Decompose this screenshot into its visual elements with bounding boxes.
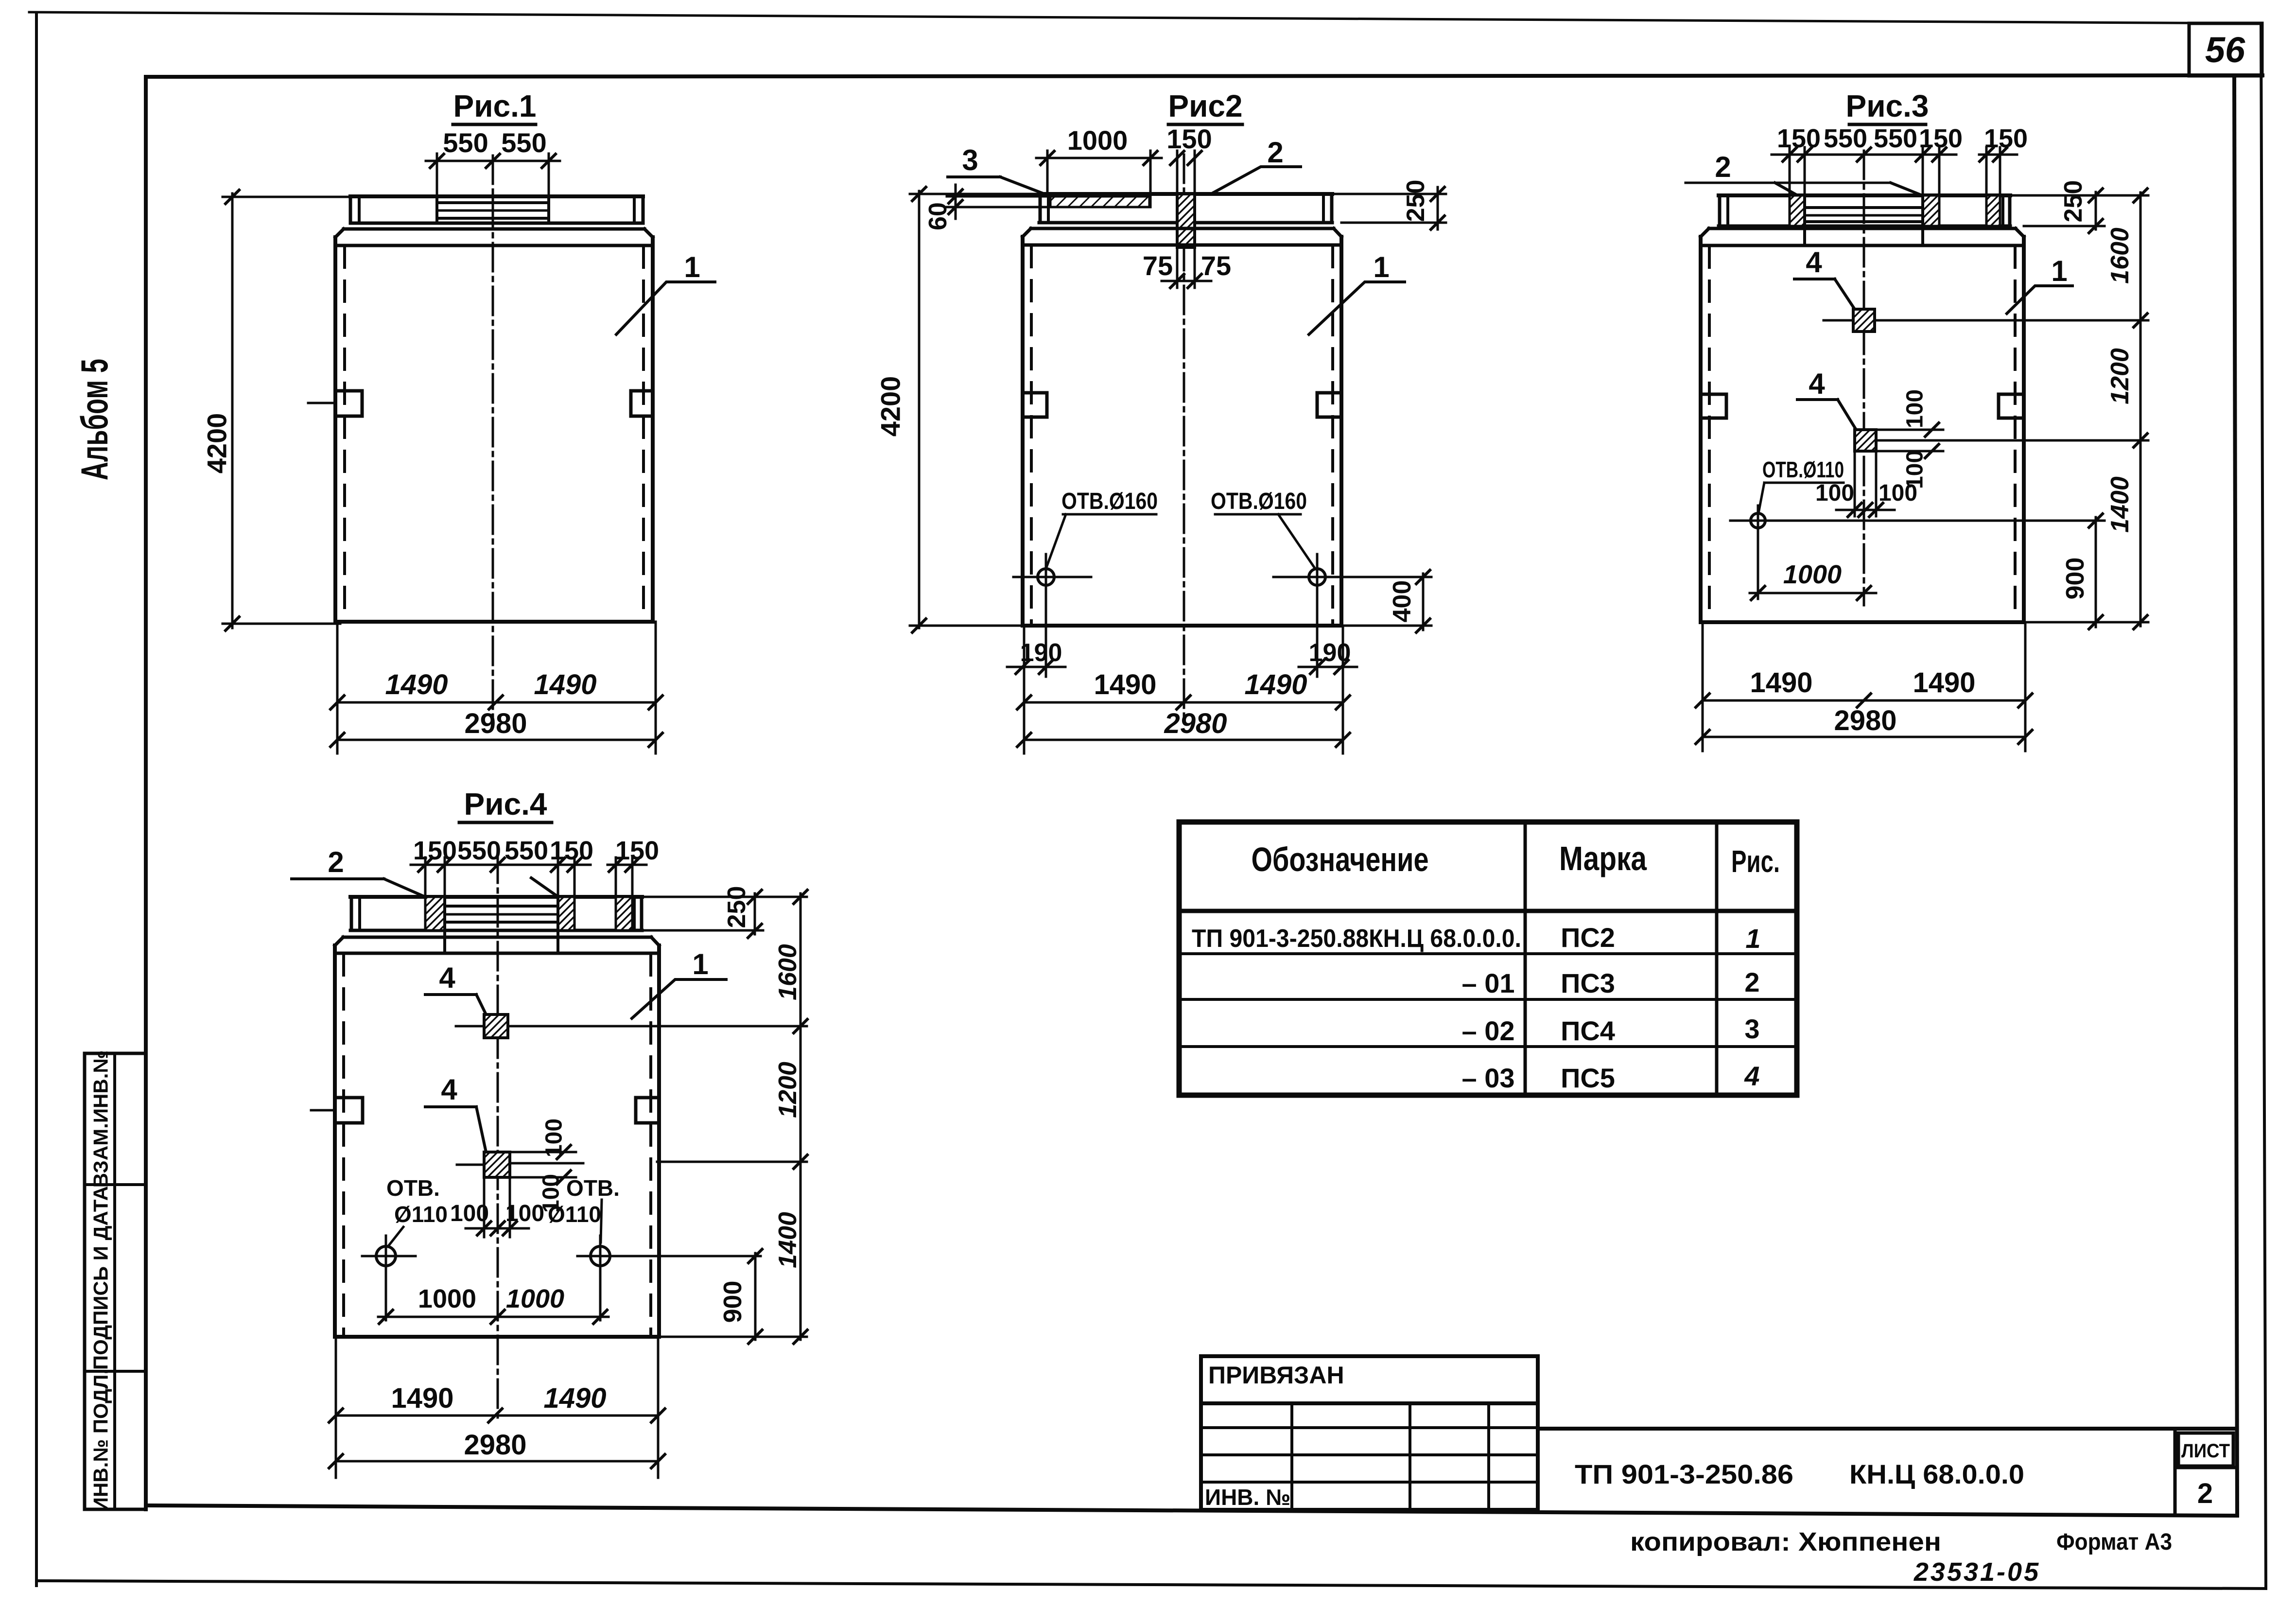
svg-text:ИНВ.№ ПОДЛ.: ИНВ.№ ПОДЛ. [89, 1369, 112, 1512]
svg-text:2980: 2980 [1164, 708, 1227, 739]
fig4 panel top strip [350, 895, 642, 899]
svg-text:150: 150 [1777, 124, 1821, 153]
svg-text:1: 1 [1745, 923, 1760, 954]
svg-text:ОТВ.: ОТВ. [386, 1175, 440, 1201]
svg-text:4: 4 [1806, 246, 1822, 279]
svg-text:2980: 2980 [464, 1429, 526, 1461]
privyazan stamp box [1201, 1356, 1538, 1510]
fig3 insert 2 blocks hatched [1790, 195, 1805, 226]
svg-text:100: 100 [1902, 389, 1928, 428]
fig4 top recess [443, 897, 446, 953]
svg-text:1: 1 [684, 251, 700, 283]
fig2 dashed edge lines [1030, 246, 1033, 622]
drawing frame [146, 75, 2262, 77]
fig3 insert 4 upper square [1853, 309, 1875, 332]
list box [2174, 1429, 2177, 1512]
svg-text:4: 4 [1744, 1061, 1759, 1091]
svg-text:ПРИВЯЗАН: ПРИВЯЗАН [1208, 1362, 1344, 1389]
svg-text:1490: 1490 [391, 1382, 453, 1414]
svg-text:550: 550 [443, 127, 488, 158]
svg-text:ПС4: ПС4 [1561, 1015, 1615, 1046]
svg-text:1000: 1000 [1783, 560, 1842, 589]
fig3 dashed edge lines [1708, 247, 1711, 619]
svg-text:150: 150 [1919, 124, 1963, 153]
svg-text:ОТВ.Ø160: ОТВ.Ø160 [1211, 489, 1307, 514]
fig3 bottom dim 2980 [1703, 736, 2025, 738]
fig4 right notch [636, 1098, 659, 1123]
svg-text:ПС2: ПС2 [1561, 922, 1615, 953]
svg-text:4: 4 [441, 1073, 457, 1106]
fig4 bottom dim 1490 1490 [335, 1337, 337, 1478]
svg-text:Формат А3: Формат А3 [2056, 1529, 2172, 1555]
svg-text:Рис.4: Рис.4 [464, 787, 547, 821]
fig2 bottom dim 2980 [1024, 739, 1343, 741]
fig1 dim 4200 [231, 193, 234, 628]
svg-text:2: 2 [1744, 967, 1759, 997]
svg-text:1600: 1600 [2106, 227, 2134, 284]
fig1 bottom dim 1490 1490 [336, 622, 339, 753]
svg-text:100: 100 [1815, 480, 1854, 506]
fig4 panel body [343, 936, 651, 939]
svg-text:1: 1 [692, 948, 708, 980]
fig4 top dim chain [411, 864, 591, 866]
svg-text:ТП 901-3-250.88КН.Ц 68.0.0.0.: ТП 901-3-250.88КН.Ц 68.0.0.0. [1192, 925, 1521, 953]
fig4 leader 1 [632, 979, 726, 1018]
fig2 right notch [1317, 393, 1341, 417]
fig3 panel top strip [1719, 193, 2010, 197]
fig2 left notch [1023, 393, 1047, 417]
svg-text:ПОДПИСЬ И ДАТА: ПОДПИСЬ И ДАТА [89, 1186, 112, 1370]
fig3 top recess [1803, 195, 1806, 245]
svg-text:4200: 4200 [875, 376, 906, 437]
svg-text:1490: 1490 [534, 669, 596, 700]
svg-text:Ø110: Ø110 [548, 1202, 601, 1227]
fig2 insert 2 hatched [1177, 194, 1195, 247]
svg-text:– 01: – 01 [1462, 968, 1515, 998]
svg-text:ОТВ.Ø110: ОТВ.Ø110 [1762, 457, 1844, 482]
svg-text:Марка: Марка [1559, 839, 1647, 877]
svg-text:Рис2: Рис2 [1168, 88, 1242, 123]
svg-text:3: 3 [1744, 1014, 1759, 1044]
svg-text:4: 4 [439, 961, 455, 994]
svg-text:75: 75 [1201, 250, 1231, 281]
svg-text:ОТВ.: ОТВ. [566, 1175, 620, 1201]
svg-text:2: 2 [1267, 136, 1283, 169]
svg-text:150: 150 [1166, 123, 1212, 154]
fig4 centre line [497, 855, 499, 1423]
fig3 top dim chain [1772, 154, 1956, 156]
fig3 insert 4 lower square [1855, 430, 1876, 451]
fig2 leader 1 [1309, 282, 1405, 334]
svg-text:Рис.3: Рис.3 [1846, 88, 1929, 123]
svg-text:– 03: – 03 [1462, 1063, 1515, 1093]
svg-text:1490: 1490 [1244, 669, 1307, 700]
svg-text:Рис.: Рис. [1731, 844, 1780, 879]
svg-text:550: 550 [1874, 124, 1917, 153]
svg-text:ТП 901-3-250.86: ТП 901-3-250.86 [1575, 1459, 1793, 1489]
fig1 panel body [344, 227, 644, 231]
stamp column box [85, 1053, 146, 1509]
svg-text:23531-05: 23531-05 [1913, 1557, 2040, 1587]
fig2 bottom dim 1490 1490 [1023, 626, 1026, 753]
svg-text:1600: 1600 [774, 944, 802, 1000]
svg-text:КН.Ц 68.0.0.0: КН.Ц 68.0.0.0 [1849, 1459, 2024, 1489]
svg-text:1490: 1490 [1750, 667, 1812, 699]
svg-text:Обозначение: Обозначение [1252, 840, 1429, 878]
svg-text:550: 550 [1824, 124, 1867, 153]
svg-text:1200: 1200 [2106, 348, 2134, 404]
svg-text:250: 250 [2059, 180, 2087, 223]
fig4 right dim chain 1600 1200 1400 [800, 893, 802, 1340]
fig1 dim line 550+550 [426, 160, 560, 162]
svg-text:56: 56 [2205, 30, 2245, 70]
svg-text:1490: 1490 [1094, 669, 1156, 700]
svg-text:ИНВ. №: ИНВ. № [1205, 1485, 1290, 1510]
svg-text:1490: 1490 [385, 669, 448, 700]
svg-text:100: 100 [505, 1201, 544, 1226]
svg-text:ПС3: ПС3 [1561, 968, 1615, 998]
svg-text:250: 250 [723, 886, 751, 928]
fig1 bottom dim 2980 [337, 739, 656, 741]
svg-text:900: 900 [2061, 558, 2089, 600]
svg-text:550: 550 [501, 127, 546, 158]
fig4 bottom dim 2980 [336, 1460, 658, 1463]
fig4 left notch [335, 1098, 363, 1123]
parts table frame [1179, 822, 1797, 1095]
fig2 hole otv160 left [1038, 569, 1054, 585]
svg-text:1490: 1490 [543, 1382, 606, 1414]
fig3 right notch [1999, 394, 2024, 418]
svg-text:400: 400 [1388, 580, 1416, 623]
fig1 panel top strip [350, 194, 643, 198]
fig1 centre line [492, 156, 494, 718]
svg-text:75: 75 [1143, 250, 1173, 281]
svg-text:1200: 1200 [774, 1062, 802, 1118]
svg-text:1490: 1490 [1913, 667, 1975, 699]
fig2 panel top strip [1039, 192, 1332, 196]
fig1 leader 1 [616, 282, 715, 334]
fig3 left notch [1701, 394, 1726, 418]
fig2 hole otv160 right [1309, 569, 1325, 585]
fig3 centre line [1863, 151, 1865, 605]
svg-text:4200: 4200 [202, 413, 232, 474]
fig3 bottom dim 1490 1490 [1702, 622, 1704, 751]
fig4 insert 4 upper square [484, 1014, 508, 1038]
svg-text:3: 3 [962, 144, 978, 176]
svg-text:ПС5: ПС5 [1561, 1063, 1615, 1093]
svg-text:Рис.1: Рис.1 [453, 88, 537, 123]
svg-text:2: 2 [328, 846, 344, 878]
svg-text:Ø110: Ø110 [394, 1202, 448, 1227]
sheet number box 56 [2189, 23, 2262, 76]
svg-text:900: 900 [719, 1281, 747, 1323]
title block top line [1538, 1427, 2236, 1431]
svg-text:2980: 2980 [1834, 705, 1896, 736]
svg-text:100: 100 [1879, 480, 1917, 506]
svg-text:ЛИСТ: ЛИСТ [2181, 1440, 2230, 1462]
fig2 centre line [1183, 155, 1185, 718]
fig3 right dim chain 1600 1200 1400 [2139, 192, 2142, 626]
fig4 dashed edge lines [342, 955, 345, 1333]
svg-text:1400: 1400 [774, 1212, 802, 1268]
svg-text:2: 2 [2197, 1478, 2213, 1509]
fig1 left notch [335, 391, 362, 416]
svg-text:1000: 1000 [506, 1284, 564, 1313]
fig4 insert 4 lower square [484, 1152, 510, 1177]
fig4 insert 2 blocks hatched [425, 897, 445, 930]
svg-text:– 02: – 02 [1462, 1015, 1515, 1046]
svg-text:1: 1 [1373, 251, 1389, 283]
svg-text:4: 4 [1809, 367, 1825, 400]
svg-text:1000: 1000 [418, 1284, 476, 1313]
svg-text:копировал: Хюппенен: копировал: Хюппенен [1630, 1527, 1941, 1556]
fig1 right notch [631, 391, 653, 416]
svg-text:ВЗАМ.ИНВ.№: ВЗАМ.ИНВ.№ [89, 1050, 112, 1188]
svg-text:1: 1 [2051, 255, 2067, 287]
svg-text:250: 250 [1402, 180, 1430, 222]
svg-text:2: 2 [1715, 151, 1731, 183]
svg-text:150: 150 [550, 836, 593, 865]
svg-text:2980: 2980 [464, 708, 527, 739]
svg-text:1400: 1400 [2106, 476, 2134, 533]
fig3 panel body [1709, 227, 2016, 230]
svg-text:Альбом 5: Альбом 5 [73, 359, 116, 480]
fig3 leader 1 [2007, 286, 2072, 314]
fig1 top recess lines [435, 196, 438, 223]
fig2 panel body [1031, 227, 1334, 230]
fig1 dashed edge lines [343, 247, 346, 618]
svg-text:ОТВ.Ø160: ОТВ.Ø160 [1061, 489, 1158, 514]
svg-text:550: 550 [504, 836, 548, 865]
svg-text:1000: 1000 [1067, 125, 1128, 156]
fig2 dim 4200 [918, 191, 921, 628]
fig2 mortar strip 3 hatched [1050, 196, 1149, 207]
svg-text:550: 550 [457, 836, 501, 865]
outer page border [35, 15, 38, 1586]
